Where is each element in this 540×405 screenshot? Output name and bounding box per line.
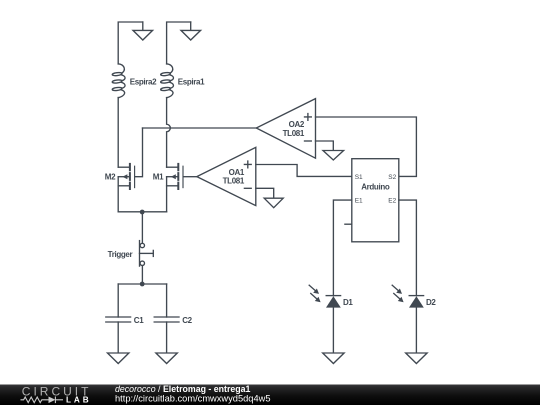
wire common node M2-M1 sources — [118, 211, 166, 213]
svg-text:LAB: LAB — [66, 395, 92, 404]
wire OA1 minus input to ground — [256, 188, 274, 198]
svg-text:Arduino: Arduino — [361, 182, 390, 191]
inductor Espira2 — [112, 64, 157, 98]
op-amp OA1 — [197, 147, 256, 205]
wire Espira2 top to ground — [118, 22, 143, 64]
wire OA2 minus input to ground — [316, 141, 334, 151]
ground below D2 — [406, 353, 427, 364]
photodiode D1 — [309, 285, 353, 307]
wire node to C1 — [117, 284, 119, 317]
wire Arduino E2 to D2 — [399, 200, 417, 296]
transistor M1 — [153, 164, 183, 189]
wire Arduino E1 to D1 — [333, 200, 351, 296]
transistor M2 — [105, 164, 135, 189]
wire OA2 output with hop over Espira1 wire — [143, 127, 257, 129]
wire C1 to ground — [117, 322, 119, 353]
svg-text:TL081: TL081 — [223, 177, 245, 186]
wire D2 to ground — [415, 308, 417, 353]
wire M1 gate to OA1 output — [184, 176, 197, 178]
footer bar — [0, 385, 540, 405]
svg-text:D1: D1 — [343, 298, 353, 307]
wire M2 gate to OA2 output — [135, 128, 142, 177]
wire node to C2 — [166, 284, 168, 317]
svg-text:Espira1: Espira1 — [178, 78, 205, 87]
wire M1 source down — [166, 177, 168, 212]
wire trigger to bottom node — [141, 266, 143, 284]
svg-text:D2: D2 — [426, 298, 436, 307]
photodiode D2 — [392, 285, 436, 307]
ground at OA2 minus — [323, 151, 344, 161]
ground top-right — [181, 22, 201, 40]
ground at OA1 minus — [264, 198, 283, 208]
ground below C2 — [156, 353, 177, 364]
svg-text:OA2: OA2 — [289, 120, 305, 129]
IC Arduino — [345, 159, 399, 242]
wire C2 to ground — [166, 322, 168, 353]
capacitor C2 — [154, 316, 192, 325]
svg-text:C1: C1 — [134, 316, 144, 325]
svg-text:E2: E2 — [388, 198, 396, 205]
ground top-left — [133, 22, 153, 40]
wire D1 to ground — [332, 308, 334, 353]
ground below C1 — [108, 353, 129, 364]
svg-text:C2: C2 — [182, 316, 192, 325]
op-amp OA2 — [256, 99, 315, 159]
junction bottom node — [140, 282, 145, 287]
switch Trigger — [108, 241, 154, 267]
svg-text:Espira2: Espira2 — [130, 78, 157, 87]
svg-text:S2: S2 — [388, 174, 396, 181]
wire bottom node — [118, 283, 166, 285]
svg-text:http://circuitlab.com/cmwxwyd5: http://circuitlab.com/cmwxwyd5dq4w5 — [115, 393, 271, 403]
junction common node — [140, 210, 145, 215]
capacitor C1 — [106, 316, 144, 325]
wire Espira2 to M2 drain — [117, 98, 119, 168]
ground below D1 — [323, 353, 344, 364]
wire node to trigger — [141, 212, 143, 244]
svg-text:E1: E1 — [355, 198, 363, 205]
inductor Espira1 — [160, 64, 205, 98]
wire M2 source down — [117, 177, 119, 212]
svg-text:TL081: TL081 — [283, 129, 305, 138]
wire Espira1 top to ground — [167, 22, 191, 64]
wire Espira1 to M1 drain with hop over OA2 output — [167, 98, 171, 168]
svg-text:OA1: OA1 — [229, 168, 245, 177]
logo CIRCUIT LAB — [21, 385, 92, 405]
wire OA2 plus input to Arduino S2 — [316, 117, 417, 176]
svg-text:M1: M1 — [153, 173, 164, 182]
svg-text:Trigger: Trigger — [108, 250, 133, 259]
wire OA1 plus input to Arduino S1 — [256, 165, 352, 177]
svg-text:M2: M2 — [105, 173, 116, 182]
svg-text:S1: S1 — [355, 174, 363, 181]
